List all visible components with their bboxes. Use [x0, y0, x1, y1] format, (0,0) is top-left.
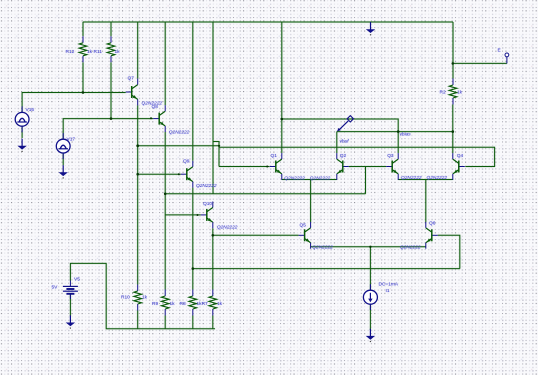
junction nub wire A corner: [218, 145, 220, 147]
wire R12 column top: [82, 22, 84, 36]
junction vbuf tap on Q1 column: [281, 118, 284, 121]
wire Q8 collector column: [164, 22, 166, 105]
junction feedback wire R8 column: [192, 267, 195, 270]
wire Q2 collector riser: [336, 132, 338, 154]
junction output tap: [452, 62, 455, 65]
svg-text:I1: I1: [386, 288, 390, 294]
wire Q5 Q6 emitter rail: [311, 246, 426, 248]
wire pair1 tail drop to Q5 collector: [310, 180, 312, 223]
svg-text:Q2N2222: Q2N2222: [284, 175, 305, 181]
wire R12 column bottom: [82, 62, 84, 92]
resistor R12: [66, 36, 93, 62]
wire Q1 collector column: [281, 22, 283, 153]
resistor R11: [94, 36, 121, 62]
wire feedback horizontal y268: [193, 268, 460, 270]
junction Q10 emitter Q5 base: [212, 234, 215, 237]
junction vertex on Q10 base wire: [197, 214, 199, 216]
wire Q5 base: [213, 234, 299, 236]
junction vbias output column: [452, 130, 455, 133]
wire Q7 collector column: [137, 22, 139, 79]
wire base tie drop to tail node: [365, 167, 367, 194]
transistor Q9: [181, 159, 217, 190]
svg-text:1k: 1k: [87, 49, 93, 55]
wire Q9 emitter down through to R8: [192, 188, 194, 290]
svg-text:Q2N2222: Q2N2222: [310, 175, 331, 181]
transistor Q8: [152, 104, 190, 135]
svg-text:DC=1mA: DC=1mA: [379, 281, 399, 287]
svg-text:Q2N2222: Q2N2222: [400, 244, 421, 250]
svg-text:V5: V5: [74, 277, 80, 283]
svg-text:1k: 1k: [217, 301, 223, 307]
resistor R9: [152, 290, 175, 316]
ground below V17: [59, 165, 68, 178]
svg-text:1k: 1k: [457, 89, 463, 95]
svg-text:5V: 5V: [52, 284, 59, 290]
svg-text:R12: R12: [66, 49, 75, 55]
svg-text:1k: 1k: [142, 294, 148, 300]
transistor Q5: [299, 222, 334, 250]
wire R10 bottom to rail: [137, 311, 139, 329]
transistor Q7: [126, 75, 163, 106]
svg-text:Q2N2222: Q2N2222: [196, 183, 217, 189]
ground on top rail: [366, 22, 375, 35]
svg-text:Q7: Q7: [128, 75, 135, 81]
svg-text:Q2: Q2: [340, 153, 347, 159]
wire vbias horizontal: [337, 131, 453, 133]
wire battery bottom lead: [69, 294, 71, 316]
wire Q10 emitter down to R7: [212, 228, 214, 289]
wire R8 bottom to rail: [192, 316, 194, 329]
wire V16 to Q7 base: [22, 93, 126, 113]
wire Q2 Q3 base tie: [349, 166, 386, 168]
svg-text:vbuf: vbuf: [340, 139, 350, 145]
svg-text:1k: 1k: [170, 301, 176, 307]
source V16: [15, 106, 34, 132]
source V17: [56, 133, 75, 159]
svg-text:R8: R8: [180, 301, 186, 307]
svg-text:Q5: Q5: [300, 222, 307, 228]
junction Q7 emitter on wire A: [136, 144, 139, 147]
wire A input node horizontal: [138, 145, 219, 147]
junction R11 bottom on V17 wire: [110, 117, 113, 120]
junction I1 top on emitter rail: [369, 246, 371, 248]
transistor Q6 mirrored: [400, 220, 438, 250]
wire Q6 base to feedback column: [438, 235, 460, 268]
wire R9 bottom to rail: [164, 316, 166, 329]
wire Q7 emitter to wire A and R10: [137, 105, 139, 284]
wire tail node horizontal y194: [165, 193, 365, 195]
wire Q9 collector column: [192, 22, 194, 161]
ground below battery V5: [66, 315, 75, 328]
wire Q9 base from Q7 emitter column: [138, 173, 181, 175]
wire output tap to port: [453, 62, 507, 64]
wire B long to Q4 base: [213, 142, 495, 167]
wire Q1 base: [219, 166, 270, 168]
svg-text:1kR7: 1kR7: [197, 301, 209, 307]
wire R11 column bottom: [110, 62, 112, 118]
transistor Q10: [201, 201, 238, 230]
current source I1: [363, 281, 398, 310]
port E output pin: [498, 48, 509, 64]
junction Q9 base on Q7 emitter column: [136, 173, 139, 176]
wire I1 bottom lead: [369, 304, 371, 330]
wire A corner down to Q1 base level: [218, 146, 220, 167]
resistor R2 output: [440, 79, 463, 105]
svg-text:Q4: Q4: [457, 153, 464, 159]
node vbuf marker probe: [337, 116, 354, 132]
transistor Q1: [270, 153, 305, 181]
junction R12 bottom on V16 wire: [82, 91, 85, 94]
wire R7 bottom to rail: [212, 316, 214, 329]
junction vertex on Q9 base wire: [178, 173, 180, 175]
svg-text:Q9: Q9: [183, 159, 190, 165]
resistor R10: [121, 285, 148, 311]
wire pair1 emitter rail: [282, 179, 337, 181]
junction nub on V17 wire: [150, 117, 152, 119]
junction vertex on Q1 base wire: [266, 166, 268, 168]
svg-text:Q2N2222: Q2N2222: [217, 224, 238, 230]
wire top ground rail: [83, 21, 453, 23]
svg-text:R9: R9: [152, 301, 158, 307]
svg-text:E: E: [498, 48, 501, 54]
junction R9 top on tail wire: [164, 193, 167, 196]
resistor R8: [180, 290, 209, 316]
wire V17 lower lead: [62, 153, 64, 165]
svg-text:Q10: Q10: [203, 201, 212, 207]
svg-text:R10: R10: [121, 294, 130, 300]
wire Q10 base from R9 column: [165, 214, 201, 216]
svg-text:Q8: Q8: [152, 104, 159, 110]
wire pair2 tail drop to Q6 collector: [425, 180, 427, 223]
wire rail drop to Q10 collector: [212, 22, 214, 194]
wire Q4 collector column: [452, 105, 454, 154]
resistor R7: [209, 290, 223, 316]
svg-text:V17: V17: [67, 136, 76, 142]
wire V16 lower lead: [21, 126, 23, 138]
junction vbias node: [397, 130, 400, 133]
transistor Q3: [386, 153, 422, 181]
svg-text:R2: R2: [440, 89, 446, 95]
wire pair2 emitter rail: [398, 179, 453, 181]
wire Q8 emitter down through R9: [164, 132, 166, 290]
svg-text:Q6: Q6: [429, 220, 436, 226]
wire V17 to Q8 base: [63, 119, 153, 140]
wire vbuf tap upper: [282, 119, 398, 132]
svg-text:Q3: Q3: [387, 153, 394, 159]
svg-text:vbias: vbias: [400, 131, 412, 137]
wire R11 column top: [110, 22, 112, 36]
svg-text:1k: 1k: [115, 49, 121, 55]
ground below V16: [17, 139, 26, 152]
svg-text:R11: R11: [94, 49, 103, 55]
ground below I1: [366, 329, 375, 342]
transistor Q2 mirrored: [310, 153, 349, 181]
svg-text:V16: V16: [26, 107, 35, 113]
svg-text:Q2N2222: Q2N2222: [427, 175, 448, 181]
svg-text:Q2N2222: Q2N2222: [312, 244, 333, 250]
svg-text:Q2N2222: Q2N2222: [169, 129, 190, 135]
wire output resistor top: [452, 22, 454, 79]
svg-text:Q2N2222: Q2N2222: [401, 175, 422, 181]
wire emitter rail drop to I1: [369, 247, 371, 290]
transistor Q4 mirrored: [427, 153, 465, 181]
wire Q3 collector riser: [397, 132, 399, 154]
svg-text:Q1: Q1: [271, 153, 278, 159]
battery V5: [52, 277, 81, 300]
wire battery top to bottom rail: [70, 263, 215, 328]
